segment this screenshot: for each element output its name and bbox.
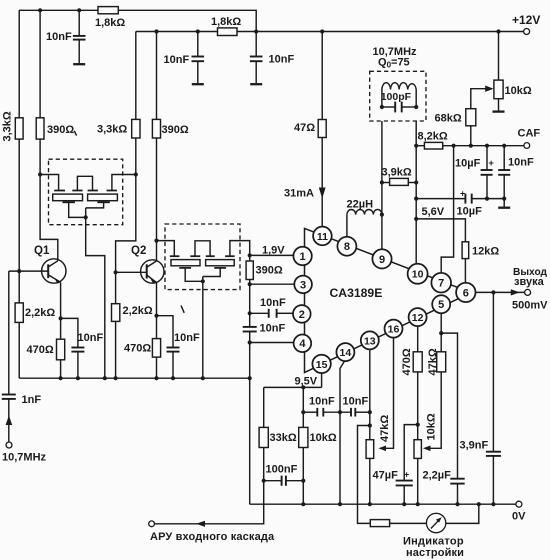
svg-text:2,2kΩ: 2,2kΩ (123, 305, 153, 317)
svg-text:390Ω: 390Ω (47, 124, 74, 136)
svg-text:1: 1 (300, 251, 306, 263)
svg-text:33kΩ: 33kΩ (270, 432, 297, 444)
svg-text:АРУ входного каскада: АРУ входного каскада (150, 531, 275, 543)
svg-text:10kΩ: 10kΩ (426, 413, 438, 440)
svg-text:47kΩ: 47kΩ (379, 415, 391, 442)
svg-text:2: 2 (299, 309, 305, 321)
svg-text:100pF: 100pF (381, 91, 412, 103)
svg-text:10nF: 10nF (508, 157, 534, 169)
svg-text:CAF: CAF (518, 128, 541, 140)
svg-text:Q1: Q1 (34, 245, 50, 257)
svg-text:5: 5 (438, 299, 444, 311)
svg-text:500mV: 500mV (512, 300, 548, 312)
svg-text:6: 6 (463, 287, 469, 299)
svg-text:+12V: +12V (512, 13, 540, 27)
svg-text:68kΩ: 68kΩ (435, 113, 462, 125)
svg-text:10nF: 10nF (260, 323, 286, 335)
svg-text:10µF: 10µF (455, 158, 481, 170)
svg-text:2,2µF: 2,2µF (423, 470, 452, 482)
svg-text:8: 8 (344, 241, 350, 253)
svg-text:9,5V: 9,5V (295, 376, 318, 388)
svg-text:8,2kΩ: 8,2kΩ (418, 131, 448, 143)
svg-text:10nF: 10nF (164, 54, 190, 66)
svg-text:31mA: 31mA (284, 188, 314, 200)
svg-text:10,7MHz: 10,7MHz (2, 452, 47, 464)
svg-text:390Ω: 390Ω (256, 265, 283, 277)
svg-text:1nF: 1nF (22, 394, 42, 406)
svg-text:22µH: 22µH (347, 199, 374, 211)
svg-text:100nF: 100nF (266, 464, 298, 476)
svg-text:390Ω: 390Ω (162, 124, 189, 136)
svg-text:Q2: Q2 (131, 245, 146, 257)
svg-text:+: + (489, 158, 494, 168)
svg-text:10nF: 10nF (269, 54, 295, 66)
svg-text:470Ω: 470Ω (27, 344, 54, 356)
svg-text:1,9V: 1,9V (262, 245, 285, 257)
svg-text:10nF: 10nF (260, 297, 286, 309)
svg-text:10µF: 10µF (457, 206, 483, 218)
svg-text:10kΩ: 10kΩ (310, 432, 337, 444)
svg-text:1,8kΩ: 1,8kΩ (95, 17, 125, 29)
svg-text:10nF: 10nF (343, 396, 369, 408)
svg-text:12: 12 (412, 312, 424, 324)
svg-text:3,3kΩ: 3,3kΩ (97, 124, 127, 136)
svg-text:12kΩ: 12kΩ (472, 246, 499, 258)
svg-text:Индикатор: Индикатор (403, 536, 464, 548)
svg-text:7: 7 (438, 278, 444, 290)
svg-text:15: 15 (316, 359, 328, 371)
svg-text:10nF: 10nF (309, 396, 335, 408)
svg-text:47kΩ: 47kΩ (427, 348, 439, 375)
svg-text:10nF: 10nF (174, 332, 200, 344)
svg-text:+: + (460, 189, 465, 199)
svg-text:470Ω: 470Ω (401, 348, 413, 375)
svg-text:4: 4 (299, 338, 306, 350)
svg-text:2,2kΩ: 2,2kΩ (25, 307, 55, 319)
svg-text:5,6V: 5,6V (422, 206, 445, 218)
svg-text:47Ω: 47Ω (294, 122, 315, 134)
svg-text:3,9kΩ: 3,9kΩ (382, 167, 412, 179)
svg-text:3: 3 (300, 279, 306, 291)
svg-text:9: 9 (379, 254, 385, 266)
svg-text:1,8kΩ: 1,8kΩ (211, 16, 241, 28)
svg-text:настройки: настройки (406, 547, 464, 559)
svg-text:13: 13 (364, 335, 376, 347)
svg-text:10nF: 10nF (46, 31, 72, 43)
svg-text:10nF: 10nF (78, 332, 104, 344)
svg-text:звука: звука (514, 276, 545, 288)
svg-text:47µF: 47µF (373, 470, 399, 482)
svg-text:14: 14 (340, 347, 352, 359)
svg-text:3,3kΩ: 3,3kΩ (2, 111, 14, 141)
svg-text:Q0=75: Q0=75 (378, 57, 410, 70)
svg-text:11: 11 (317, 231, 328, 243)
svg-text:+: + (404, 470, 409, 480)
svg-text:CA3189E: CA3189E (330, 286, 383, 300)
svg-text:470Ω: 470Ω (124, 343, 151, 355)
svg-text:16: 16 (388, 324, 400, 336)
svg-text:3,9nF: 3,9nF (460, 440, 489, 452)
svg-text:0V: 0V (512, 511, 526, 523)
svg-text:10: 10 (412, 269, 424, 281)
svg-text:10kΩ: 10kΩ (505, 85, 532, 97)
